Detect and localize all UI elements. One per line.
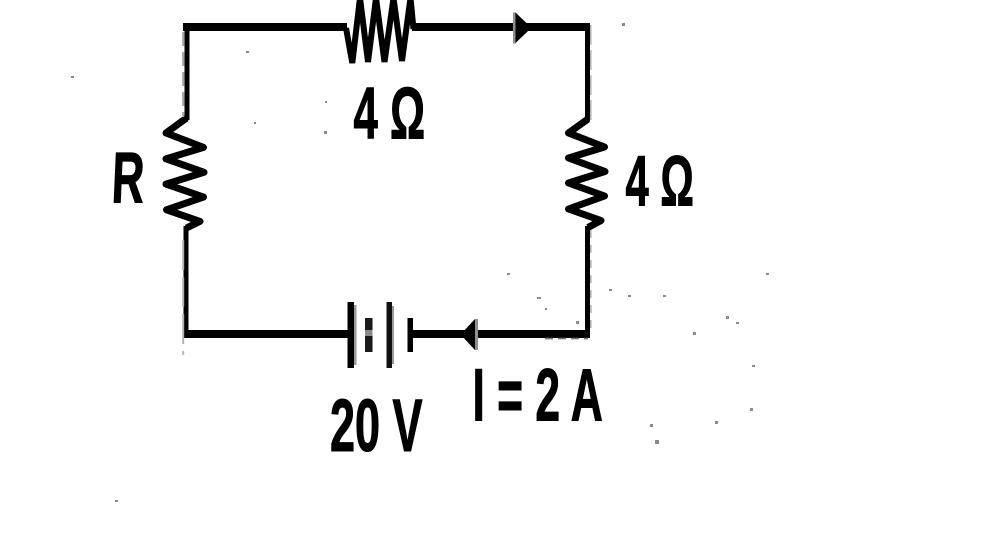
arrow current direction (bottom, leftward) bbox=[461, 319, 479, 350]
wire left-top segment bbox=[185, 23, 190, 120]
wire left-bottom segment bbox=[184, 226, 189, 335]
svg-text:4 Ω: 4 Ω bbox=[354, 73, 426, 154]
label 20 V bbox=[330, 385, 423, 467]
svg-text:R: R bbox=[110, 138, 146, 218]
battery 20V: plate short 1 bbox=[365, 318, 373, 352]
label 4Ω right bbox=[626, 142, 694, 221]
label I = 2 A bbox=[473, 354, 603, 436]
battery 20V: plate long 1 bbox=[348, 302, 357, 368]
wire right-top segment bbox=[585, 23, 590, 121]
wire bottom-right segment bbox=[412, 330, 590, 338]
battery 20V: plate long 2 bbox=[387, 302, 395, 368]
scan artifacts: grey fringe along right wire bbox=[590, 25, 592, 120]
label R bbox=[110, 138, 146, 218]
resistor R1 4Ω (top) bbox=[346, 0, 414, 63]
scan artifacts: grey fringe along left wire bbox=[182, 32, 184, 117]
wire top-left segment bbox=[183, 23, 347, 31]
wire right-bottom segment bbox=[585, 226, 590, 335]
svg-text:4 Ω: 4 Ω bbox=[626, 142, 694, 221]
svg-text:I = 2 A: I = 2 A bbox=[473, 354, 603, 436]
battery 20V: plate short 2 bbox=[408, 318, 414, 352]
scan artifacts: dark dashes under bottom wire bbox=[545, 338, 588, 340]
wire bottom-left segment bbox=[183, 330, 348, 338]
resistor R (left) bbox=[166, 118, 204, 228]
resistor R2 4Ω (right) bbox=[569, 119, 606, 228]
scan noise dots bbox=[71, 23, 769, 502]
label 4Ω top bbox=[354, 73, 426, 154]
wire top-right segment bbox=[412, 23, 590, 31]
svg-text:20 V: 20 V bbox=[330, 385, 423, 467]
arrow current direction (top, rightward) bbox=[513, 13, 532, 44]
